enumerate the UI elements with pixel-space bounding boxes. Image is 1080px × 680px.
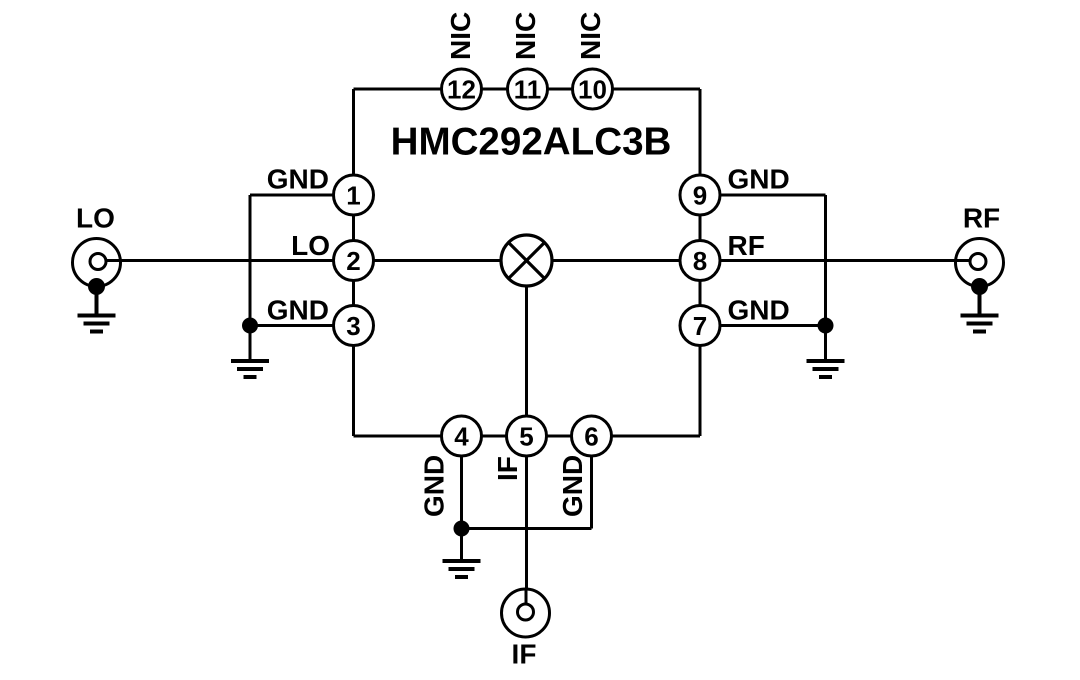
svg-text:RF: RF — [728, 230, 765, 261]
ground symbol at RF connector — [961, 287, 999, 332]
junction dot left ground bus at pin 3 — [242, 318, 258, 334]
mixer U1 — [501, 235, 552, 286]
svg-text:6: 6 — [584, 421, 598, 451]
svg-text:IF: IF — [512, 639, 537, 670]
pin 4 — [442, 416, 482, 456]
svg-text:GND: GND — [728, 164, 790, 195]
svg-text:IF: IF — [492, 456, 523, 481]
wire LO input line — [97, 259, 354, 262]
svg-text:9: 9 — [693, 180, 707, 210]
pin 8 — [680, 241, 720, 281]
svg-text:LO: LO — [291, 230, 330, 261]
wire package top edge — [354, 88, 701, 91]
pin 1 — [334, 175, 374, 215]
pin 6 — [572, 416, 612, 456]
pin 9 — [680, 175, 720, 215]
junction dot right ground bus at pin 7 — [818, 318, 834, 334]
ground symbol bottom ground bus — [443, 561, 481, 577]
svg-text:7: 7 — [693, 311, 707, 341]
pin 7 — [680, 306, 720, 346]
wire mixer to pin 5 — [525, 261, 528, 437]
ground symbol right ground bus — [807, 361, 845, 377]
ground symbol left ground bus — [231, 361, 269, 377]
svg-text:4: 4 — [454, 421, 469, 451]
connector J3 IF coax jack — [502, 588, 550, 637]
svg-text:2: 2 — [346, 246, 360, 276]
wire package bottom edge — [354, 435, 701, 438]
wire left ground bus vertical — [249, 195, 252, 360]
svg-text:3: 3 — [346, 311, 360, 341]
svg-text:1: 1 — [346, 180, 360, 210]
ground symbol at LO connector — [78, 287, 116, 332]
wire mixer to pin 8 — [527, 259, 701, 262]
svg-text:GND: GND — [419, 455, 450, 517]
wire pin 9 to right ground bus — [700, 194, 826, 197]
svg-text:8: 8 — [693, 246, 707, 276]
wire pin 4 ground stub — [460, 436, 463, 529]
svg-text:5: 5 — [519, 421, 533, 451]
pin 5 — [507, 416, 547, 456]
wire package left edge — [352, 89, 355, 436]
wire mixer to pin 2 — [354, 259, 527, 262]
wire pin 5 to IF connector — [525, 436, 528, 590]
connector J2 RF coax jack — [954, 239, 1004, 296]
wire right ground bus vertical — [824, 195, 827, 360]
svg-text:NIC: NIC — [510, 12, 541, 60]
wire bottom ground bus horizontal — [462, 527, 592, 530]
wire package right edge — [699, 89, 702, 436]
wire pin 3 to left ground bus — [250, 324, 354, 327]
svg-text:LO: LO — [76, 203, 115, 234]
svg-text:GND: GND — [267, 164, 329, 195]
wire bottom ground stem — [460, 529, 463, 561]
svg-text:NIC: NIC — [575, 12, 606, 60]
svg-text:GND: GND — [557, 455, 588, 517]
pin 10 — [573, 69, 613, 109]
pin 12 — [442, 69, 482, 109]
pin 2 — [334, 241, 374, 281]
svg-text:GND: GND — [267, 295, 329, 326]
svg-text:10: 10 — [578, 74, 607, 104]
wire RF output line — [700, 259, 980, 262]
svg-text:GND: GND — [728, 295, 790, 326]
pin 3 — [334, 306, 374, 346]
svg-text:11: 11 — [514, 74, 542, 104]
wire pin 7 to right ground bus — [700, 324, 826, 327]
connector J1 LO coax jack — [73, 239, 123, 296]
wire pin 1 to left ground bus — [250, 194, 354, 197]
svg-text:NIC: NIC — [445, 12, 476, 60]
svg-text:HMC292ALC3B: HMC292ALC3B — [391, 121, 672, 164]
svg-text:12: 12 — [447, 74, 476, 104]
wire pin 6 ground stub — [590, 436, 593, 529]
junction dot bottom ground bus at pin 4 — [454, 521, 470, 537]
pin 11 — [508, 69, 548, 109]
svg-text:RF: RF — [963, 203, 1000, 234]
